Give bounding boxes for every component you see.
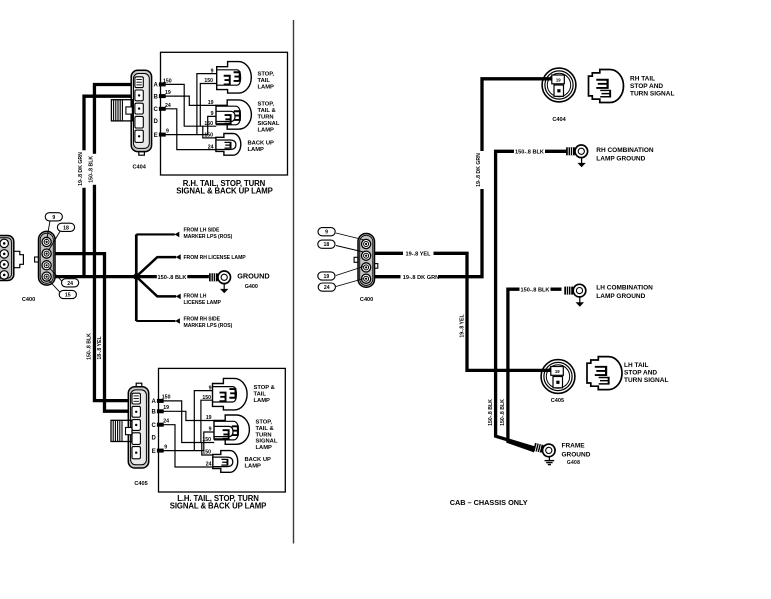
svg-text:19-.8 DK GRN: 19-.8 DK GRN (403, 275, 439, 281)
svg-text:A: A (153, 83, 158, 89)
svg-text:19: 19 (206, 415, 212, 421)
svg-text:150-.8 BLK: 150-.8 BLK (488, 399, 494, 426)
svg-text:24: 24 (206, 462, 212, 468)
svg-text:LH COMBINATION: LH COMBINATION (596, 285, 653, 292)
svg-text:24: 24 (165, 103, 171, 109)
svg-text:LAMP: LAMP (248, 147, 265, 153)
svg-text:D: D (151, 436, 156, 442)
svg-text:SIGNAL & BACK UP LAMP: SIGNAL & BACK UP LAMP (170, 502, 266, 511)
svg-text:TURN: TURN (256, 432, 272, 438)
svg-text:C400: C400 (360, 297, 373, 303)
svg-text:LAMP GROUND: LAMP GROUND (596, 156, 645, 163)
svg-text:C400: C400 (22, 297, 35, 303)
svg-text:G408: G408 (567, 460, 580, 466)
svg-text:24: 24 (208, 144, 214, 150)
svg-text:C: C (153, 107, 158, 113)
svg-text:FROM RH LICENSE LAMP: FROM RH LICENSE LAMP (184, 255, 247, 261)
svg-text:FROM LH SIDE: FROM LH SIDE (184, 227, 221, 233)
svg-text:E: E (154, 133, 158, 139)
svg-text:TURN: TURN (258, 115, 274, 121)
svg-text:150-.8 BLK: 150-.8 BLK (515, 150, 544, 156)
svg-text:TAIL: TAIL (254, 391, 267, 397)
svg-text:19: 19 (163, 405, 169, 411)
svg-text:C405: C405 (134, 481, 147, 487)
svg-text:18-.8 YEL: 18-.8 YEL (97, 336, 103, 360)
svg-text:LAMP: LAMP (256, 445, 273, 451)
svg-text:150: 150 (204, 78, 213, 84)
svg-text:150: 150 (202, 437, 211, 443)
svg-text:LAMP: LAMP (245, 463, 262, 469)
svg-text:150: 150 (204, 133, 213, 139)
svg-text:C: C (151, 423, 156, 429)
svg-text:9: 9 (209, 385, 212, 391)
svg-text:A: A (151, 399, 156, 405)
svg-text:9: 9 (325, 230, 328, 236)
svg-text:TURN SIGNAL: TURN SIGNAL (630, 91, 674, 98)
svg-text:150: 150 (202, 450, 211, 456)
svg-text:9: 9 (166, 129, 169, 135)
svg-text:STOP,: STOP, (258, 102, 275, 108)
svg-text:FROM RH SIDE: FROM RH SIDE (184, 316, 221, 322)
svg-text:LAMP GROUND: LAMP GROUND (596, 293, 645, 300)
svg-text:LAMP: LAMP (258, 127, 275, 133)
svg-text:RH TAIL: RH TAIL (630, 76, 655, 83)
svg-text:150-.8 BLK: 150-.8 BLK (89, 156, 95, 183)
svg-text:SIGNAL: SIGNAL (258, 121, 280, 127)
svg-text:150-.8 BLK: 150-.8 BLK (158, 275, 187, 281)
svg-text:9: 9 (211, 68, 214, 74)
svg-text:MARKER LPS (ROS): MARKER LPS (ROS) (184, 323, 233, 329)
svg-text:TURN SIGNAL: TURN SIGNAL (624, 377, 668, 384)
svg-text:LAMP: LAMP (254, 398, 271, 404)
svg-text:19-.8 DK GRN: 19-.8 DK GRN (476, 153, 482, 187)
svg-text:GROUND: GROUND (237, 272, 269, 281)
svg-text:19: 19 (208, 100, 214, 106)
svg-text:LICENSE LAMP: LICENSE LAMP (184, 300, 222, 306)
svg-text:150-.8 BLK: 150-.8 BLK (521, 288, 550, 294)
svg-text:9: 9 (211, 111, 214, 117)
svg-text:STOP AND: STOP AND (624, 369, 657, 376)
svg-text:150-.8 BLK: 150-.8 BLK (500, 399, 506, 426)
svg-text:19: 19 (324, 274, 330, 280)
svg-text:STOP,: STOP, (258, 72, 275, 78)
svg-text:18: 18 (324, 242, 330, 248)
svg-text:BACK UP: BACK UP (248, 140, 275, 146)
svg-text:TAIL: TAIL (258, 78, 271, 84)
svg-text:C404: C404 (552, 117, 566, 123)
svg-text:RH COMBINATION: RH COMBINATION (596, 147, 654, 154)
svg-text:B: B (151, 410, 156, 416)
svg-text:150: 150 (163, 78, 172, 84)
svg-text:150: 150 (202, 395, 211, 401)
svg-text:STOP,: STOP, (256, 420, 273, 426)
svg-text:19-.8 YEL: 19-.8 YEL (459, 314, 465, 338)
svg-text:GROUND: GROUND (562, 451, 591, 458)
svg-text:G400: G400 (245, 284, 258, 290)
svg-text:24: 24 (324, 285, 330, 291)
svg-text:D: D (153, 119, 158, 125)
svg-text:STOP AND: STOP AND (630, 83, 663, 90)
svg-text:150-.8 BLK: 150-.8 BLK (86, 333, 92, 360)
svg-text:C405: C405 (551, 398, 564, 404)
svg-text:150: 150 (204, 121, 213, 127)
svg-text:19-.8 YEL: 19-.8 YEL (406, 251, 432, 257)
svg-text:SIGNAL & BACK UP LAMP: SIGNAL & BACK UP LAMP (176, 187, 272, 196)
svg-text:18: 18 (63, 225, 69, 231)
svg-text:SIGNAL: SIGNAL (256, 439, 278, 445)
svg-text:19: 19 (165, 90, 171, 96)
svg-text:B: B (153, 94, 158, 100)
svg-text:19-.8 DK GRN: 19-.8 DK GRN (78, 152, 84, 186)
svg-text:24: 24 (163, 418, 169, 424)
svg-text:9: 9 (52, 215, 55, 221)
svg-text:TAIL &: TAIL & (258, 108, 276, 114)
svg-text:150: 150 (162, 395, 171, 401)
svg-text:24: 24 (67, 281, 73, 287)
svg-text:C404: C404 (133, 165, 147, 171)
svg-text:9: 9 (164, 444, 167, 450)
svg-text:LH TAIL: LH TAIL (624, 362, 648, 369)
svg-text:BACK UP: BACK UP (245, 457, 272, 463)
svg-text:STOP &: STOP & (254, 385, 275, 391)
svg-text:MARKER LPS (ROS): MARKER LPS (ROS) (184, 234, 233, 240)
svg-text:LAMP: LAMP (258, 84, 275, 90)
svg-text:9: 9 (209, 427, 212, 433)
svg-text:FRAME: FRAME (562, 442, 586, 449)
svg-text:TAIL &: TAIL & (256, 426, 274, 432)
svg-text:E: E (152, 449, 156, 455)
svg-text:CAB – CHASSIS ONLY: CAB – CHASSIS ONLY (450, 498, 528, 507)
svg-text:FROM LH: FROM LH (184, 293, 207, 299)
svg-text:15: 15 (65, 293, 71, 299)
